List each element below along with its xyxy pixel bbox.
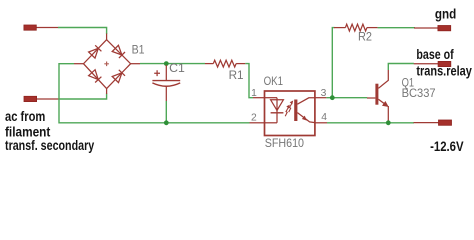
svg-text:3: 3: [321, 88, 327, 99]
svg-text:1: 1: [251, 88, 257, 99]
svg-text:gnd: gnd: [435, 7, 456, 22]
bridge rectifier B1: [74, 34, 145, 95]
emitter with arrow: [378, 99, 387, 105]
svg-text:OK1: OK1: [264, 74, 284, 88]
light arrow 2: [289, 103, 292, 112]
phototransistor base bar: [294, 100, 297, 122]
svg-text:ac from: ac from: [5, 109, 45, 124]
plus mark of bridge: [104, 62, 109, 67]
wire collector net: [388, 64, 414, 71]
junction C1 top: [164, 61, 169, 66]
wire plus net: R1 to optocoupler pin 1: [245, 64, 253, 98]
supply stub -12.6V: [414, 120, 452, 125]
svg-text:SFH610: SFH610: [265, 136, 305, 150]
wire AC1 net: stub to bridge top vertex: [58, 28, 107, 35]
capacitor C1: [152, 61, 185, 101]
svg-text:B1: B1: [132, 42, 145, 56]
svg-text:BC337: BC337: [402, 86, 436, 100]
base bar: [375, 84, 378, 105]
LED triangle: [271, 100, 284, 111]
emitter line with arrow: [297, 113, 315, 123]
junction pin3 node: [330, 95, 335, 100]
diode D-bottom-left: [89, 70, 99, 80]
wire plus net: bridge right vertex to R1: [140, 63, 205, 65]
diode D-top-right: [112, 45, 122, 55]
supply stub gnd: [414, 26, 451, 31]
wire R2 to gnd stub: [378, 27, 415, 29]
internal LED lead from pin 1: [265, 97, 278, 99]
wire minus net: bridge left vertex to bottom-left rail: [59, 64, 250, 123]
LED cathode bar: [271, 112, 284, 114]
diode D-top-left: [89, 48, 99, 58]
svg-text:C1: C1: [169, 61, 185, 75]
base pin stub: [367, 97, 375, 99]
collector line: [297, 98, 315, 104]
svg-text:2: 2: [251, 113, 257, 124]
resistor R1: [205, 60, 245, 82]
wire C1 bottom lead to rail: [165, 101, 167, 123]
optocoupler OK1: [250, 74, 328, 150]
pin 4 stub: [315, 122, 327, 124]
wire -12.6V rail: opto pin4, Q1 emitter, stub: [327, 122, 414, 124]
pin 3 stub: [315, 97, 327, 99]
pin 1 stub: [253, 97, 265, 99]
supply stub AC input 2: [24, 96, 59, 101]
svg-text:trans.relay: trans.relay: [416, 63, 472, 78]
svg-text:R2: R2: [358, 30, 372, 44]
diode D-bottom-right: [112, 73, 122, 83]
stub base of trans.relay: [414, 61, 451, 66]
transistor Q1: [367, 70, 436, 122]
svg-text:-12.6V: -12.6V: [430, 139, 464, 154]
wire AC2 net: stub to bridge bottom vertex (crosses ground wire, no junction): [59, 94, 107, 100]
svg-text:transf. secondary: transf. secondary: [5, 138, 94, 153]
internal LED lead to pin 2: [265, 122, 278, 124]
svg-text:base of: base of: [416, 47, 454, 62]
pin 2 stub: [250, 122, 265, 124]
svg-text:R1: R1: [229, 68, 244, 82]
collector: [378, 70, 388, 88]
junction Q1 emitter on rail: [386, 120, 391, 125]
supply stub AC input 1: [24, 25, 58, 30]
resistor R2: [334, 24, 378, 43]
junction C1 bottom on ground rail: [164, 120, 169, 125]
light arrow 1: [285, 107, 288, 116]
svg-text:4: 4: [321, 112, 327, 123]
wire pin3 net: opto to junction, up to R2, right to Q1 base: [326, 97, 367, 99]
